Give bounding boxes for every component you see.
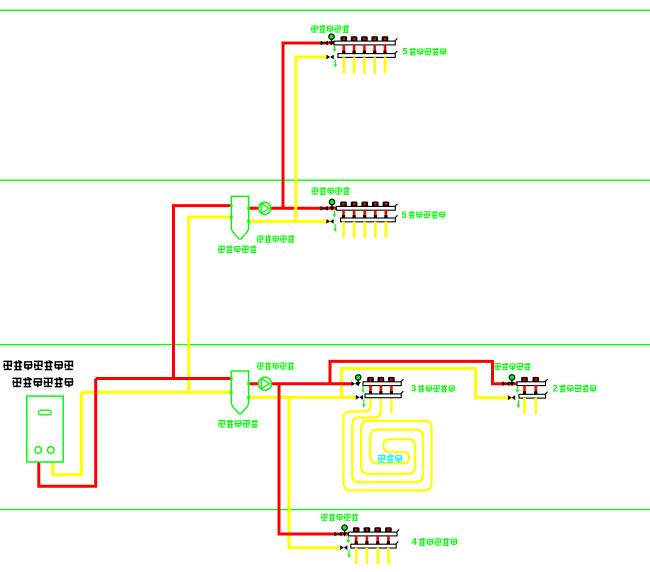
svg-text:3: 3 <box>411 383 416 394</box>
pipe: branch supply red to 4-loop manifold <box>279 384 350 534</box>
label: multifunction ball valve (2-way) <box>494 363 530 370</box>
label: circulation pump (ground) <box>257 363 294 370</box>
pipe: ground-floor return main yellow <box>81 391 231 394</box>
coil stub pipe <box>390 398 392 414</box>
manifold 3-loop ground <box>351 375 403 408</box>
floor-heating coil loop A (supply spiral) <box>343 398 431 490</box>
manifold 2-loop ground right <box>502 375 548 415</box>
floor slab line 3 <box>0 344 650 346</box>
pipe: boiler supply red drop/run <box>39 379 96 487</box>
manifold 4-loop basement <box>334 525 399 564</box>
floor-heating coil loop B (return spiral) <box>352 398 423 482</box>
label: 2-way manifold <box>553 383 597 394</box>
label: 5-way manifold (floor2) <box>402 209 446 220</box>
pipe: boiler return yellow drop/run <box>53 392 82 475</box>
svg-text:4: 4 <box>412 537 418 548</box>
pipe: riser supply red floor2 <box>174 206 232 379</box>
circulation pump ground floor <box>259 377 272 390</box>
label: coupling tank (ground) <box>218 420 258 428</box>
pipe: ground pump-side return yellow <box>249 396 357 399</box>
coupling tank ground floor <box>230 371 250 414</box>
pipe: ground-floor supply main red <box>96 377 232 380</box>
label: multifunction ball valve (basement) <box>321 514 358 521</box>
pipe: floor2 return yellow <box>249 220 331 223</box>
label: multifunction ball valve (floor2) <box>312 187 350 194</box>
pipe: floor2 supply red <box>249 207 337 210</box>
label: floor-heating pipe <box>378 455 402 463</box>
label: 5-way manifold (floor1) <box>403 46 447 57</box>
coupling tank floor2 <box>230 196 250 239</box>
svg-text:5: 5 <box>403 46 408 57</box>
pipe: riser return yellow to floor1 + floor1 run <box>296 57 329 221</box>
manifold 5-loop floor1 (top) <box>321 34 398 74</box>
label: multifunction ball valve (floor1) <box>311 25 349 32</box>
floor slab line 2 <box>0 179 650 181</box>
gas wall-hung boiler <box>27 396 63 462</box>
pipe: branch supply red to 2-loop manifold <box>330 361 518 383</box>
floor slab line 4 <box>0 509 650 511</box>
label: circulation pump (floor2) <box>257 235 295 242</box>
label: 4-way manifold <box>412 537 458 548</box>
label: 3-way manifold <box>411 383 455 394</box>
label: boiler name line2 <box>13 378 74 388</box>
circulation pump floor2 <box>259 202 271 214</box>
manifold 5-loop floor2 (middle) <box>321 199 398 238</box>
pipe: branch return yellow to 4-loop manifold <box>289 397 341 547</box>
svg-text:5: 5 <box>402 209 407 220</box>
pipe: branch return yellow to 2-loop manifold <box>341 369 512 398</box>
pipe: ground pump-side supply red <box>249 382 352 385</box>
svg-text:2: 2 <box>553 383 558 394</box>
floor slab line 1 <box>0 9 650 11</box>
label: coupling tank (floor2) <box>218 246 257 253</box>
pipe: riser return yellow floor2 <box>189 217 232 392</box>
label: boiler name line1 <box>3 361 73 370</box>
pipe: riser supply red to floor1 + floor1 run <box>283 43 335 208</box>
